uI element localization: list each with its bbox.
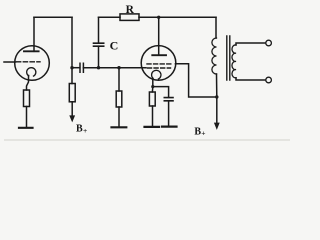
- triode V1 envelope: [15, 46, 50, 81]
- V2 screen wire to B+: [175, 64, 216, 97]
- ground G4: [162, 125, 177, 127]
- wire RL to B+ arrow: [71, 102, 73, 117]
- V1 cathode: [27, 68, 36, 76]
- transformer primary lead: [215, 17, 217, 38]
- V1 cathode lead wire: [27, 76, 29, 91]
- wire Ck to ground: [168, 101, 170, 127]
- svg-text:C: C: [110, 39, 119, 53]
- resistor Rg lead: [118, 68, 120, 91]
- V2 control grid (dashed): [148, 67, 171, 69]
- resistor R: [120, 14, 139, 21]
- V1 grid (dashed): [17, 61, 41, 63]
- ground G1: [19, 127, 33, 129]
- capacitor C plates: [94, 43, 104, 46]
- wire B+ node to arrow: [216, 97, 218, 124]
- wire top-left: [34, 16, 72, 18]
- resistor Rk1: [24, 90, 30, 107]
- transformer core: [227, 36, 230, 80]
- secondary bottom lead: [236, 78, 266, 80]
- svg-text:R: R: [126, 4, 135, 16]
- wire Rk2 to ground: [152, 106, 154, 127]
- V2 plate: [152, 54, 166, 56]
- pentode V2 envelope: [141, 46, 176, 81]
- B+ arrow 2: [215, 123, 220, 129]
- ground G3: [145, 126, 160, 128]
- coupling capacitor Cc plates: [80, 63, 83, 72]
- node: RL / Cc junction: [70, 66, 73, 69]
- wire Rg to ground: [118, 107, 120, 127]
- node: Rg junction: [117, 66, 120, 69]
- svg-text:+: +: [201, 129, 205, 138]
- transformer primary winding: [212, 38, 217, 74]
- V1 plate: [24, 50, 39, 52]
- wire C corner to R: [99, 16, 121, 18]
- V1 grid input stub: [4, 61, 16, 63]
- V2 screen grid (dashed): [147, 63, 172, 65]
- V2 cathode lead wire: [152, 79, 154, 87]
- coupling capacitor Cc left lead: [72, 67, 80, 69]
- B+ arrow 1: [70, 116, 75, 122]
- output terminal bottom: [266, 77, 272, 83]
- svg-text:B: B: [76, 123, 83, 134]
- node: V2 plate junction: [157, 16, 160, 19]
- node: V2 cathode junction: [151, 85, 154, 88]
- V2 cathode: [152, 70, 161, 79]
- V1 plate lead wire: [33, 17, 35, 51]
- ground G2: [112, 126, 127, 128]
- transformer secondary winding: [232, 45, 236, 78]
- resistor Rg: [116, 91, 122, 107]
- wire cathode node to Ck: [153, 87, 169, 98]
- node: B+ / screen junction: [215, 95, 218, 98]
- wire primary to B+ node: [216, 74, 218, 97]
- node: C / grid wire junction: [97, 66, 100, 69]
- output terminal top: [266, 40, 272, 46]
- capacitor Ck plates: [164, 98, 173, 101]
- resistor Rk2: [149, 92, 155, 106]
- feedback wire corner at C: [98, 17, 100, 43]
- wire cathode node to Rk2: [151, 87, 153, 92]
- wire left vertical to RL: [71, 17, 73, 83]
- wire R to transformer: [139, 16, 216, 18]
- capacitor C bottom lead: [98, 46, 100, 67]
- wire Cc to V2 grid: [83, 67, 146, 69]
- V2 plate lead wire: [158, 17, 160, 55]
- wire Rk1 to ground: [26, 107, 28, 128]
- svg-text:+: +: [83, 126, 87, 135]
- scan shadow bottom edge: [4, 139, 290, 140]
- secondary top lead: [236, 43, 266, 45]
- resistor RL (plate load): [69, 84, 75, 102]
